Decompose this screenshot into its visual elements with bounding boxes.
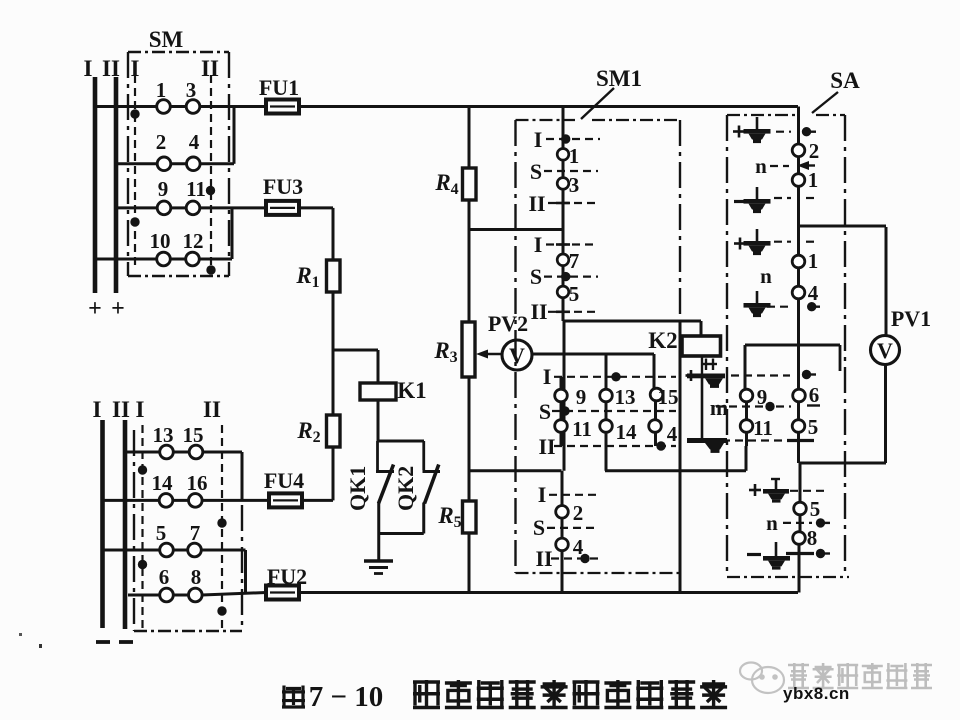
SM1 bottom column stubs xyxy=(561,471,564,507)
svg-text:II: II xyxy=(538,434,555,459)
n-group column stubs xyxy=(799,463,802,502)
fuse FU4 xyxy=(269,493,302,507)
svg-text:7: 7 xyxy=(569,249,580,273)
wire R1 to R2 xyxy=(332,292,335,415)
polarity - marks under bottom buses xyxy=(96,640,110,644)
wire PV1 bottom tap (y=463) xyxy=(799,462,887,465)
svg-text:V: V xyxy=(877,338,893,363)
wire lower link (y=471) 13/14 column to SA terminal 11 column xyxy=(605,469,746,472)
wire terminal12 up to row 9-11 xyxy=(231,208,234,259)
wire QK bottoms to ground bar xyxy=(377,503,380,534)
n-group row dash 1 xyxy=(790,490,827,492)
SA stub 2-1 xyxy=(797,157,800,174)
SA row dash 5 with dot xyxy=(767,306,791,308)
svg-text:1: 1 xyxy=(569,144,580,168)
svg-text:2: 2 xyxy=(573,501,584,525)
watermark text xyxy=(788,663,809,688)
terminal 7 xyxy=(188,543,202,557)
fuse FU2 xyxy=(266,586,299,600)
wire R5 to bottom rail xyxy=(468,533,471,593)
wire junction to SM1 bottom group (y=471) xyxy=(469,469,562,472)
svg-text:II: II xyxy=(102,56,120,81)
terminal 13 xyxy=(160,445,174,459)
m row I with dot xyxy=(731,374,790,376)
SA column down to m-group xyxy=(797,299,800,390)
bus II (bottom left) xyxy=(123,420,128,629)
svg-text:2: 2 xyxy=(156,130,167,154)
SM1 terminal 15 xyxy=(650,388,663,401)
wire branch R column to K1 xyxy=(333,349,378,352)
SA row dash 3 xyxy=(774,197,791,199)
SM1 right edge wire down to bottom rail xyxy=(679,321,682,593)
svg-text:SM: SM xyxy=(149,27,184,52)
terminal 6 xyxy=(160,588,174,602)
watermark logo xyxy=(740,663,784,694)
SA terminal 1b xyxy=(792,255,805,268)
SM1 terminal 9 xyxy=(555,389,568,402)
svg-text:5: 5 xyxy=(808,415,819,439)
inner column I dash line (bottom block) xyxy=(141,425,143,628)
svg-text:FU4: FU4 xyxy=(264,468,304,493)
SA terminal 5m xyxy=(792,420,805,433)
svg-text:I: I xyxy=(534,232,543,257)
SA contact sym2 - xyxy=(756,187,759,199)
wire row 6-8 (y=595) xyxy=(128,594,160,597)
SA terminal 4 xyxy=(792,286,805,299)
SA terminal 9m xyxy=(740,389,753,402)
terminal 12 xyxy=(186,252,200,266)
svg-text:3: 3 xyxy=(186,78,197,102)
svg-text:II: II xyxy=(530,299,547,324)
svg-text:16: 16 xyxy=(187,471,208,495)
svg-text:S: S xyxy=(533,515,545,540)
wire R4 to R3 xyxy=(468,200,471,322)
n-group row dash 2 with dot xyxy=(783,522,812,524)
svg-text:I: I xyxy=(131,56,140,81)
svg-text:5: 5 xyxy=(156,521,167,545)
terminal 16 xyxy=(189,494,203,508)
SA contact sym4 xyxy=(756,291,759,303)
bus I (top left) xyxy=(93,77,98,293)
svg-text:1: 1 xyxy=(808,249,819,273)
fuse FU3 xyxy=(266,201,299,215)
SM1 terminal 11 xyxy=(555,420,568,433)
wire PV2 to terminal 15 column xyxy=(532,353,654,356)
junction dots on inner columns (top block) xyxy=(130,109,139,118)
SA terminal 5n xyxy=(794,502,807,515)
K2 contact lower (on m row II) xyxy=(687,438,727,443)
wire PV1 top tap (y=226) xyxy=(799,225,887,228)
wire K2 contact column xyxy=(701,378,704,438)
resistor R2 xyxy=(327,415,341,447)
svg-text:6: 6 xyxy=(159,565,170,589)
wire FU2 bottom rail (y=592) xyxy=(299,591,798,594)
wire top rail to R4 xyxy=(468,107,471,169)
switch QK1 xyxy=(376,441,379,470)
n-group row solid bar with dot xyxy=(786,552,814,555)
wire row 13-15 (y=452) xyxy=(125,451,160,454)
svg-text:V: V xyxy=(509,343,525,368)
wire junction to SM1 column (y=229) xyxy=(469,228,563,231)
terminal 4 xyxy=(187,157,201,171)
caption figure 7-10 title xyxy=(282,686,305,708)
svg-text:FU1: FU1 xyxy=(259,75,299,100)
svg-text:I: I xyxy=(538,482,547,507)
n-group contact sym + xyxy=(749,489,761,492)
svg-text:S: S xyxy=(539,399,551,424)
wire down to K2 coil xyxy=(700,321,703,336)
wire row 10-12 (y=259) xyxy=(95,258,158,261)
SM1 terminal 4 xyxy=(556,538,569,551)
stubs terminal 9/11 column xyxy=(560,377,563,390)
svg-text:15: 15 xyxy=(183,423,204,447)
SM1 terminal 7 xyxy=(557,254,569,266)
svg-text:I: I xyxy=(136,397,145,422)
terminal 14 xyxy=(159,494,173,508)
SA row dash 2 with moving contact arrow xyxy=(770,165,789,167)
svg-text:15: 15 xyxy=(658,385,679,409)
terminal 3 xyxy=(186,100,200,114)
svg-text:n: n xyxy=(760,264,772,288)
wire SA terminal1 down to PV1 tap xyxy=(797,186,800,255)
m row S with dot xyxy=(716,405,764,407)
potentiometer R3 xyxy=(462,322,475,377)
svg-text:4: 4 xyxy=(667,422,678,446)
svg-text:2: 2 xyxy=(809,139,820,163)
svg-text:11: 11 xyxy=(186,177,206,201)
inner column II dash line (bottom block) xyxy=(221,425,223,628)
bridge wire over m group xyxy=(745,344,840,347)
svg-text:14: 14 xyxy=(616,420,638,444)
wire FU1 to SA (top rail y=106) xyxy=(299,105,798,108)
wire row 14-16 (y=500) xyxy=(103,499,160,502)
svg-text:S: S xyxy=(530,264,542,289)
svg-text:I: I xyxy=(543,364,552,389)
wire row 1-3 (y=107) xyxy=(95,105,157,108)
wire FU3 to R1 branch xyxy=(299,206,333,209)
SA terminal 2 xyxy=(792,144,805,157)
svg-text:+: + xyxy=(88,296,102,322)
SM1 terminal 4b xyxy=(649,420,662,433)
svg-text:1: 1 xyxy=(156,78,167,102)
SM1 terminal 14 xyxy=(600,420,613,433)
wire terminal4 up to row1 xyxy=(233,107,236,164)
terminal 15 xyxy=(189,445,203,459)
SM1 enclosure dashed box xyxy=(516,119,576,121)
inner column II dash line (top block) xyxy=(210,75,212,268)
svg-text:13: 13 xyxy=(615,385,636,409)
resistor R5 xyxy=(463,501,477,533)
SA terminal 11m xyxy=(740,420,753,433)
SM1 terminal 2 xyxy=(556,506,569,519)
K2 contact upper (on m row I) xyxy=(686,374,697,377)
svg-text:II: II xyxy=(528,191,545,216)
svg-text:4: 4 xyxy=(573,535,584,559)
svg-text:QK2: QK2 xyxy=(393,466,418,511)
wire PV1 bottom lead xyxy=(884,365,887,464)
svg-text:5: 5 xyxy=(810,497,821,521)
SM1 terminal 3 xyxy=(557,178,569,190)
svg-text:I: I xyxy=(534,127,543,152)
R3 wiper arrow from PV2 xyxy=(480,353,502,356)
svg-text:11: 11 xyxy=(572,417,592,441)
svg-text:12: 12 xyxy=(183,229,204,253)
terminal 5 xyxy=(160,543,174,557)
svg-text:13: 13 xyxy=(153,423,174,447)
svg-text:ybx8.cn: ybx8.cn xyxy=(783,684,850,703)
svg-text:3: 3 xyxy=(569,173,580,197)
svg-text:II: II xyxy=(201,56,219,81)
n-group contact sym - xyxy=(747,553,761,556)
wire 7 branch down to FU2 row xyxy=(244,550,247,593)
K2 polarity mark xyxy=(701,363,717,365)
m row II with bar xyxy=(722,439,786,441)
svg-text:I: I xyxy=(84,56,93,81)
svg-text:II: II xyxy=(535,546,552,571)
svg-text:8: 8 xyxy=(191,565,202,589)
svg-text:+: + xyxy=(111,296,125,322)
wire top rail down into SA xyxy=(797,107,800,145)
svg-text:9: 9 xyxy=(757,385,768,409)
SM1 terminal 5 xyxy=(557,286,569,298)
junction dots (bottom block) xyxy=(138,465,147,474)
svg-text:II: II xyxy=(112,397,130,422)
SA row dash 4 xyxy=(774,241,791,243)
svg-text:11: 11 xyxy=(753,416,773,440)
svg-text:I: I xyxy=(93,397,102,422)
svg-text:n: n xyxy=(755,154,767,178)
stubs m terminals xyxy=(745,402,748,420)
svg-text:n: n xyxy=(766,511,778,535)
ground symbol xyxy=(377,534,380,562)
switch QK2 xyxy=(422,441,425,470)
svg-text:PV1: PV1 xyxy=(891,306,931,331)
stubs terminal 13/14 column xyxy=(605,354,608,390)
terminal 8 xyxy=(189,588,203,602)
svg-text:7: 7 xyxy=(190,521,201,545)
svg-text:10: 10 xyxy=(150,229,171,253)
inner column I dash line (top block) xyxy=(134,75,136,268)
terminal 11 xyxy=(186,201,200,215)
terminal 1 xyxy=(157,100,171,114)
SA stub 1b-4 xyxy=(797,268,800,286)
wire row 9-11 (y=208) xyxy=(116,206,158,209)
wire K1 to switch bar xyxy=(377,400,380,441)
SA terminal 1 xyxy=(792,174,805,187)
wire row 2-4 (y=164) xyxy=(116,162,158,165)
bus I (bottom left) xyxy=(100,420,105,628)
wire PV1 top lead xyxy=(885,227,888,336)
wire SA-11 column rise xyxy=(745,446,748,471)
svg-text:1: 1 xyxy=(808,168,819,192)
svg-text:SM1: SM1 xyxy=(596,66,642,91)
svg-text:QK1: QK1 xyxy=(345,466,370,511)
svg-text:II: II xyxy=(203,397,221,422)
stubs terminal 15/4 column xyxy=(654,400,657,421)
wire R2 down to FU4 row xyxy=(332,447,335,500)
svg-text:7 − 10: 7 − 10 xyxy=(309,681,384,713)
relay coil K1 xyxy=(360,383,396,400)
SM1 terminal 1 xyxy=(557,149,569,161)
svg-text:S: S xyxy=(530,159,542,184)
bottom terminal block enclosure (dash-dot, open top) xyxy=(133,430,135,631)
SM terminal block enclosure (dash-dot box) xyxy=(128,51,229,53)
SA terminal 8 xyxy=(793,532,806,545)
terminal 10 xyxy=(157,252,171,266)
svg-text:4: 4 xyxy=(808,281,819,305)
SM1 switch column upper xyxy=(562,107,565,150)
wire row 5-7 (y=550) xyxy=(103,549,161,552)
svg-text:4: 4 xyxy=(189,130,200,154)
svg-text:FU3: FU3 xyxy=(263,174,303,199)
SA row dash 1 with dot xyxy=(776,131,791,133)
wire R3 to R5 xyxy=(468,377,471,501)
svg-text:SA: SA xyxy=(830,68,860,93)
svg-text:8: 8 xyxy=(807,526,818,550)
bus II (top left) xyxy=(114,77,119,293)
terminal 9 xyxy=(157,201,171,215)
resistor R4 xyxy=(463,168,477,200)
tiny scan specks near bottom-left xyxy=(19,633,22,636)
SA contact sym3 + xyxy=(756,229,759,241)
relay coil K2 xyxy=(682,336,721,356)
SA terminal 6 xyxy=(793,389,806,402)
terminal 2 xyxy=(157,157,171,171)
svg-text:6: 6 xyxy=(809,383,820,407)
svg-text:FU2: FU2 xyxy=(267,564,307,589)
wire SM1 column to K2 (y=321) xyxy=(563,320,701,323)
SA contact sym1 + xyxy=(756,117,759,129)
svg-text:PV2: PV2 xyxy=(488,311,528,336)
svg-text:14: 14 xyxy=(152,471,174,495)
svg-text:K2: K2 xyxy=(648,328,677,353)
svg-text:9: 9 xyxy=(576,385,587,409)
fuse FU1 xyxy=(266,100,299,114)
voltmeter PV2 xyxy=(502,340,532,370)
SM1 terminal 13 xyxy=(600,389,613,402)
svg-text:9: 9 xyxy=(158,177,169,201)
resistor R1 xyxy=(327,260,341,292)
svg-text:5: 5 xyxy=(569,282,580,306)
voltmeter PV1 xyxy=(871,336,900,365)
svg-text:K1: K1 xyxy=(397,378,426,403)
SA enclosure dashed box xyxy=(727,114,800,116)
wire 15 branch down to FU4 row xyxy=(241,452,244,500)
